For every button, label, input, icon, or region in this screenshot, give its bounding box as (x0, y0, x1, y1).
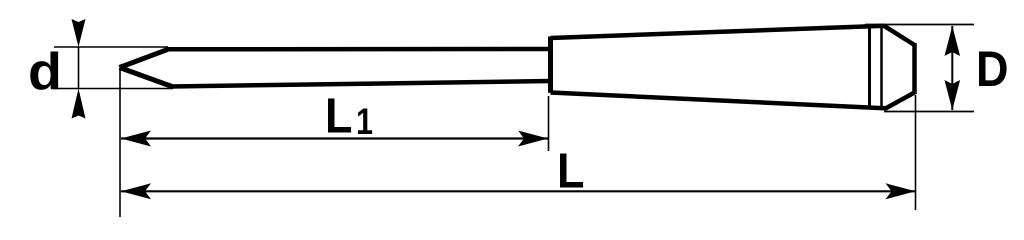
d arrow bottom (72, 89, 86, 119)
L1 arrow right (518, 131, 548, 147)
L right extension line (915, 95, 917, 210)
handle top edge (551, 26, 886, 38)
scriber shaft bottom outline (171, 81, 551, 87)
svg-text:L: L (325, 89, 353, 144)
d dimension line (78, 47, 80, 89)
d extension line top (54, 46, 168, 48)
svg-text:d: d (28, 43, 62, 101)
svg-text:1: 1 (356, 101, 373, 142)
L dimension line (121, 190, 916, 192)
L arrow right (886, 183, 916, 199)
handle cap top chamfer (884, 26, 915, 45)
tip top bevel (120, 49, 169, 67)
L arrow left (121, 183, 151, 199)
D extension line bottom (884, 111, 974, 113)
handle cap bottom chamfer (886, 93, 915, 109)
L1 arrow left (121, 131, 151, 147)
handle bottom edge (551, 93, 888, 109)
L1 right extension line (548, 96, 550, 151)
D extension line top (865, 24, 974, 26)
svg-text:L: L (557, 144, 585, 199)
ferrule line 1 (868, 27, 871, 108)
handle cap right edge (912, 43, 917, 94)
handle neck vertical edge (548, 37, 553, 93)
D arrow top (945, 26, 961, 56)
tip bottom bevel (120, 68, 173, 87)
scriber shaft top outline (167, 47, 551, 52)
d arrow top (72, 19, 86, 47)
svg-text:D: D (976, 41, 1009, 97)
tip extension line (vertical) (119, 69, 121, 217)
D dimension line (951, 26, 953, 110)
ferrule line 2 (880, 26, 883, 108)
L1 dimension line (121, 137, 548, 139)
D arrow bottom (945, 80, 961, 110)
d extension line bottom (54, 88, 173, 90)
